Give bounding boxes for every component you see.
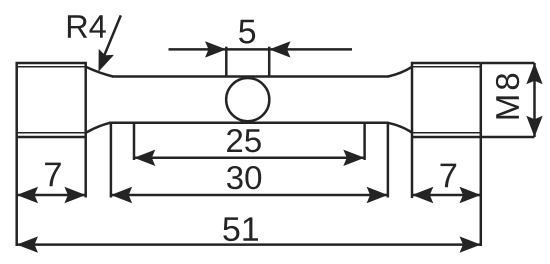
extension line 25-dim right (363, 123, 366, 160)
dimension 30 line (111, 194, 388, 197)
dimension 7 right line (412, 194, 481, 197)
left threaded end outline (17, 63, 86, 246)
R4 leader arrow (99, 49, 115, 72)
centre boss square verticals (225, 47, 228, 77)
dimension 5 line (through boss top) (169, 48, 353, 51)
left bottom fillet (86, 123, 110, 133)
shaft bottom line (109, 122, 389, 125)
left top fillet R4 (86, 67, 113, 77)
label R4 (68, 15, 106, 37)
right threaded end outline (412, 63, 481, 198)
label 25 (227, 129, 261, 152)
left end thread minor diameter lines (17, 67, 86, 133)
30 dim left arrow (111, 187, 132, 203)
51 dim arrows (17, 236, 38, 252)
M8 extension lines (481, 62, 535, 65)
dimension 25 line (134, 157, 365, 160)
label 51 (223, 217, 258, 241)
25 dim left arrow (134, 150, 155, 166)
extension line 30-dim left (110, 123, 113, 198)
extension line 25-dim left (133, 123, 136, 160)
7 right dim arrows (412, 187, 433, 203)
extension line right block right edge (480, 137, 483, 246)
25 dim right arrow (343, 150, 364, 166)
right end thread minor diameter lines (412, 67, 481, 133)
5 dim right arrow (269, 41, 290, 57)
extension line 30-dim right (387, 123, 390, 198)
M8 dimension line (533, 63, 536, 137)
extension line left block right edge (84, 137, 87, 198)
label 5 (239, 20, 255, 44)
5 dim left arrow (205, 41, 226, 57)
arrowheads (17, 41, 543, 253)
M8 dim arrows (526, 63, 542, 84)
right bottom fillet (388, 123, 412, 133)
right top fillet (388, 67, 412, 77)
dimension 7 left line (17, 194, 86, 197)
dimension 51 line (17, 243, 481, 246)
label 7 left (45, 163, 61, 187)
label 7 right (441, 164, 457, 188)
label 30 (227, 166, 261, 189)
7 left dim arrows (17, 187, 38, 203)
label M8 (496, 74, 519, 119)
shaft top line (112, 75, 389, 78)
30 dim right arrow (367, 187, 388, 203)
R4 leader line (103, 15, 121, 58)
centre hole circle (226, 78, 269, 121)
